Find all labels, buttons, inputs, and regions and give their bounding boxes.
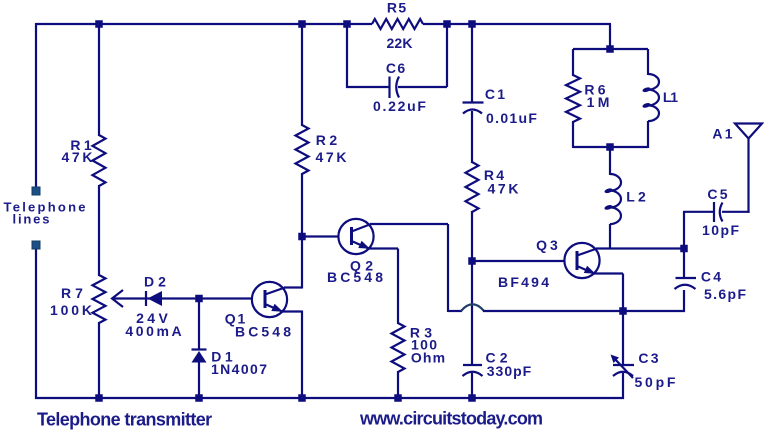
wire R2 to node B [301, 173, 303, 238]
capacitor C3 arrowhead [611, 355, 620, 364]
wire D1 bottom [198, 362, 200, 398]
wire C6 right leg [446, 24, 448, 87]
terminal square upper (telephone line) [32, 187, 40, 195]
wire bottom node mid [483, 310, 623, 312]
junction node bottom R7 [95, 394, 103, 402]
wire C1 top [471, 24, 473, 102]
svg-text:D2: D2 [144, 274, 170, 290]
wire Q2 emitter down [397, 249, 399, 325]
capacitor C1 bottom plate (curved) [463, 110, 482, 114]
capacitor C5 left plate [713, 202, 715, 222]
wire R4 to node C [471, 211, 473, 262]
junction node B Q2 base [298, 233, 306, 241]
wire C5 left [683, 211, 714, 213]
junction node bottom R3 [394, 394, 402, 402]
wire left rail lower [35, 248, 37, 399]
transistor Q2 emitter stroke [352, 241, 369, 249]
potentiometer R7 [93, 275, 106, 323]
junction node C Q3 base [468, 257, 476, 265]
junction node tank top [606, 45, 614, 53]
svg-text:BF494: BF494 [498, 274, 551, 290]
junction node tank bottom [606, 143, 614, 151]
svg-text:Q3: Q3 [536, 237, 561, 253]
junction node bottom C2 [468, 394, 476, 402]
svg-text:BC548: BC548 [235, 324, 294, 340]
svg-text:47K: 47K [315, 149, 349, 165]
wire Q3 emitter down [622, 274, 624, 367]
wire hop over C2 line [461, 304, 484, 311]
svg-text:10pF: 10pF [702, 222, 740, 238]
svg-text:L1: L1 [663, 89, 678, 105]
wire C6 right horizontal [398, 86, 447, 88]
capacitor C1 top plate [463, 101, 484, 103]
wire L2 bottom [609, 224, 611, 249]
wire Q1 emitter [281, 310, 302, 312]
resistor R3 [392, 323, 405, 372]
capacitor C2 top plate [463, 364, 482, 366]
wire C4 bottom leg [683, 290, 685, 312]
wire R7 bottom [98, 322, 100, 398]
wire antenna lead [747, 137, 749, 213]
capacitor C3 top plate [613, 364, 634, 366]
wire Q1 collector up [301, 238, 303, 289]
svg-text:Telephone transmitter: Telephone transmitter [37, 410, 212, 430]
resistor R1 [93, 135, 106, 186]
wire R3 bottom [397, 371, 399, 398]
capacitor C3 bottom plate (curved) [613, 372, 633, 376]
wire R1 top [98, 24, 100, 136]
junction node top C1 [468, 20, 476, 28]
transistor Q2 collector stroke [352, 224, 372, 232]
resistor R4 [466, 162, 479, 212]
diode D1 cathode bar [192, 348, 207, 350]
wire left rail upper [35, 23, 37, 188]
junction node bottom Q1 [298, 394, 306, 402]
svg-text:R7: R7 [61, 285, 87, 301]
wire node C to Q3 base [472, 260, 565, 262]
wire bottom node left [448, 310, 462, 312]
transistor Q2 base bar [350, 227, 353, 245]
wire node B to Q2 base [302, 235, 339, 237]
svg-text:C1: C1 [485, 86, 508, 102]
svg-text:50pF: 50pF [635, 374, 679, 390]
transistor Q3 collector stroke [577, 249, 597, 256]
svg-text:C3: C3 [638, 350, 661, 366]
wire bottom rail [35, 397, 624, 399]
diode D2 cathode bar [145, 291, 147, 306]
capacitor C3 arrow [613, 357, 633, 378]
capacitor C6 left plate [388, 77, 390, 99]
transistor Q1 base bar [264, 290, 267, 308]
wire Q1 emitter down [301, 311, 303, 399]
transistor Q2 circle [338, 219, 373, 254]
svg-text:Ohm: Ohm [411, 349, 447, 365]
wire C1 to R4 [471, 111, 473, 163]
antenna A1 [735, 124, 762, 139]
inductor L2 [610, 174, 621, 224]
wire C6 left horizontal [346, 86, 389, 88]
wire top rail down to tank [609, 24, 611, 50]
wire top rail left of R5 [36, 23, 372, 25]
junction node C4 C5 [680, 245, 688, 253]
svg-text:22K: 22K [386, 35, 412, 51]
wire C2 bottom [471, 373, 473, 398]
svg-text:100K: 100K [50, 302, 95, 318]
svg-text:R5: R5 [387, 0, 408, 16]
wire R6 top [572, 49, 574, 76]
svg-text:5.6pF: 5.6pF [704, 286, 747, 302]
svg-text:C6: C6 [386, 60, 407, 76]
wire node C to C2 [471, 261, 473, 366]
svg-text:www.circuitstoday.com: www.circuitstoday.com [359, 409, 542, 429]
wire C4 node up to C5 [683, 212, 685, 250]
wire L1 top [647, 49, 649, 75]
wire R7 wiper to Q1 base [112, 297, 253, 299]
svg-text:lines: lines [13, 212, 52, 227]
wire Q1 collector [284, 286, 302, 288]
transistor Q1 emitter stroke [265, 304, 282, 312]
svg-text:C5: C5 [707, 186, 730, 202]
resistor R2 [296, 125, 309, 174]
R7 wiper arrowhead [112, 290, 123, 307]
capacitor C4 bottom plate (curved) [675, 285, 696, 289]
wire Q3 collector [596, 247, 685, 249]
svg-text:1M: 1M [587, 94, 613, 110]
capacitor C2 bottom plate (curved) [463, 372, 483, 376]
inductor L1 [648, 74, 659, 121]
svg-text:47K: 47K [487, 181, 521, 197]
wire L1 bottom [647, 121, 649, 148]
wire C5 right [722, 211, 750, 213]
capacitor C6 right plate (curved) [396, 77, 399, 98]
wire Q2 collector down [447, 224, 449, 312]
wire bottom node right [623, 310, 685, 312]
wire R6 bottom [572, 121, 574, 148]
wire R1 to R7 [98, 185, 100, 276]
svg-text:400mA: 400mA [125, 323, 184, 339]
junction node bottom D1 [195, 394, 203, 402]
transistor Q3 emitter stroke [577, 266, 594, 274]
transistor Q1 circle [252, 282, 287, 317]
junction node top C6 right [443, 20, 451, 28]
junction node Q3 emitter [619, 307, 627, 315]
wire R2 top [301, 24, 303, 126]
wire Q2 collector [370, 223, 448, 225]
capacitor C4 top plate [676, 277, 697, 279]
svg-text:1N4007: 1N4007 [211, 361, 268, 377]
junction node top R2 [298, 20, 306, 28]
wire tank top rail [573, 48, 648, 50]
transistor Q2 emitter arrow [358, 241, 370, 249]
diode D2 triangle [148, 291, 163, 306]
capacitor C5 right plate (curved) [720, 203, 723, 222]
resistor R6 [566, 75, 580, 122]
svg-text:330pF: 330pF [487, 363, 532, 379]
svg-text:R2: R2 [316, 132, 341, 148]
svg-text:0.01uF: 0.01uF [486, 110, 538, 126]
wire C3 bottom [622, 373, 624, 399]
wire Q2 emitter [368, 247, 398, 249]
transistor Q3 base bar [576, 251, 579, 270]
transistor Q1 collector stroke [265, 288, 285, 295]
svg-text:A1: A1 [712, 126, 735, 142]
wire C4 top leg [683, 249, 685, 279]
transistor Q3 circle [564, 243, 599, 278]
svg-text:L2: L2 [626, 189, 649, 205]
junction node top R1 [95, 20, 103, 28]
junction node A D1 top [195, 295, 203, 303]
terminal square lower (telephone line) [32, 241, 40, 249]
svg-text:47K: 47K [61, 149, 95, 165]
transistor Q1 emitter arrow [271, 304, 283, 312]
wire Q3 emitter [593, 272, 623, 274]
wire C6 left leg [346, 24, 348, 88]
diode D1 triangle [192, 351, 207, 363]
wire tank to L2 [609, 147, 611, 175]
wire node A to D1 [198, 299, 200, 351]
wire tank bottom rail [573, 146, 648, 148]
junction node top C6 left [343, 20, 351, 28]
svg-text:C4: C4 [701, 269, 724, 285]
wire top rail right of R5 [423, 23, 611, 25]
resistor R5 [372, 19, 423, 29]
transistor Q3 emitter arrow [584, 266, 596, 274]
svg-text:0.22uF: 0.22uF [373, 98, 428, 114]
svg-text:BC548: BC548 [327, 269, 386, 285]
